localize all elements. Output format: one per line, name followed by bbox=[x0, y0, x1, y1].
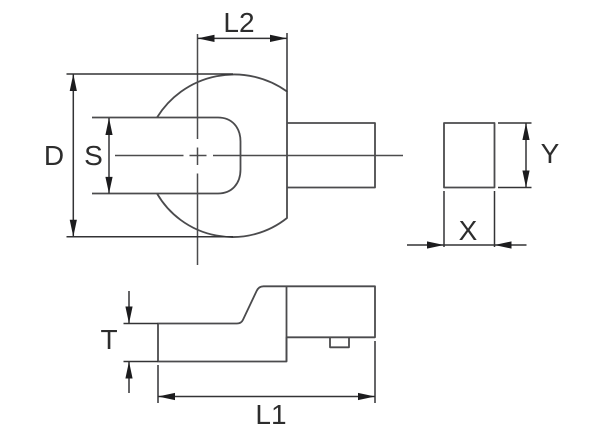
side view: step edge line bbox=[286, 286, 288, 361]
top view: wrench head outline bbox=[157, 74, 287, 237]
svg-text:T: T bbox=[100, 324, 117, 355]
side view: detent notch bbox=[330, 337, 349, 347]
vertical centerline bbox=[197, 34, 199, 265]
horizontal centerline bbox=[115, 155, 403, 157]
svg-text:S: S bbox=[84, 140, 103, 171]
dimension L1 bbox=[158, 341, 375, 403]
top view: shank rectangle bbox=[287, 123, 375, 188]
side view: profile outline bbox=[158, 286, 375, 361]
dimension D bbox=[67, 74, 234, 237]
svg-text:L2: L2 bbox=[223, 7, 254, 38]
svg-text:Y: Y bbox=[541, 138, 560, 169]
svg-text:X: X bbox=[459, 215, 478, 246]
top view: jaw bottom edge bbox=[92, 193, 218, 195]
svg-text:L1: L1 bbox=[255, 399, 286, 430]
top view: jaw top edge bbox=[92, 117, 218, 119]
dimension T bbox=[124, 291, 159, 393]
dimension Y bbox=[498, 123, 532, 188]
dimension X bbox=[407, 191, 527, 247]
end view: square drive rectangle bbox=[444, 123, 495, 188]
svg-text:D: D bbox=[44, 140, 64, 171]
dimension S bbox=[108, 118, 110, 194]
dimension L2 bbox=[198, 33, 288, 92]
top view: jaw root curve bbox=[218, 118, 241, 194]
